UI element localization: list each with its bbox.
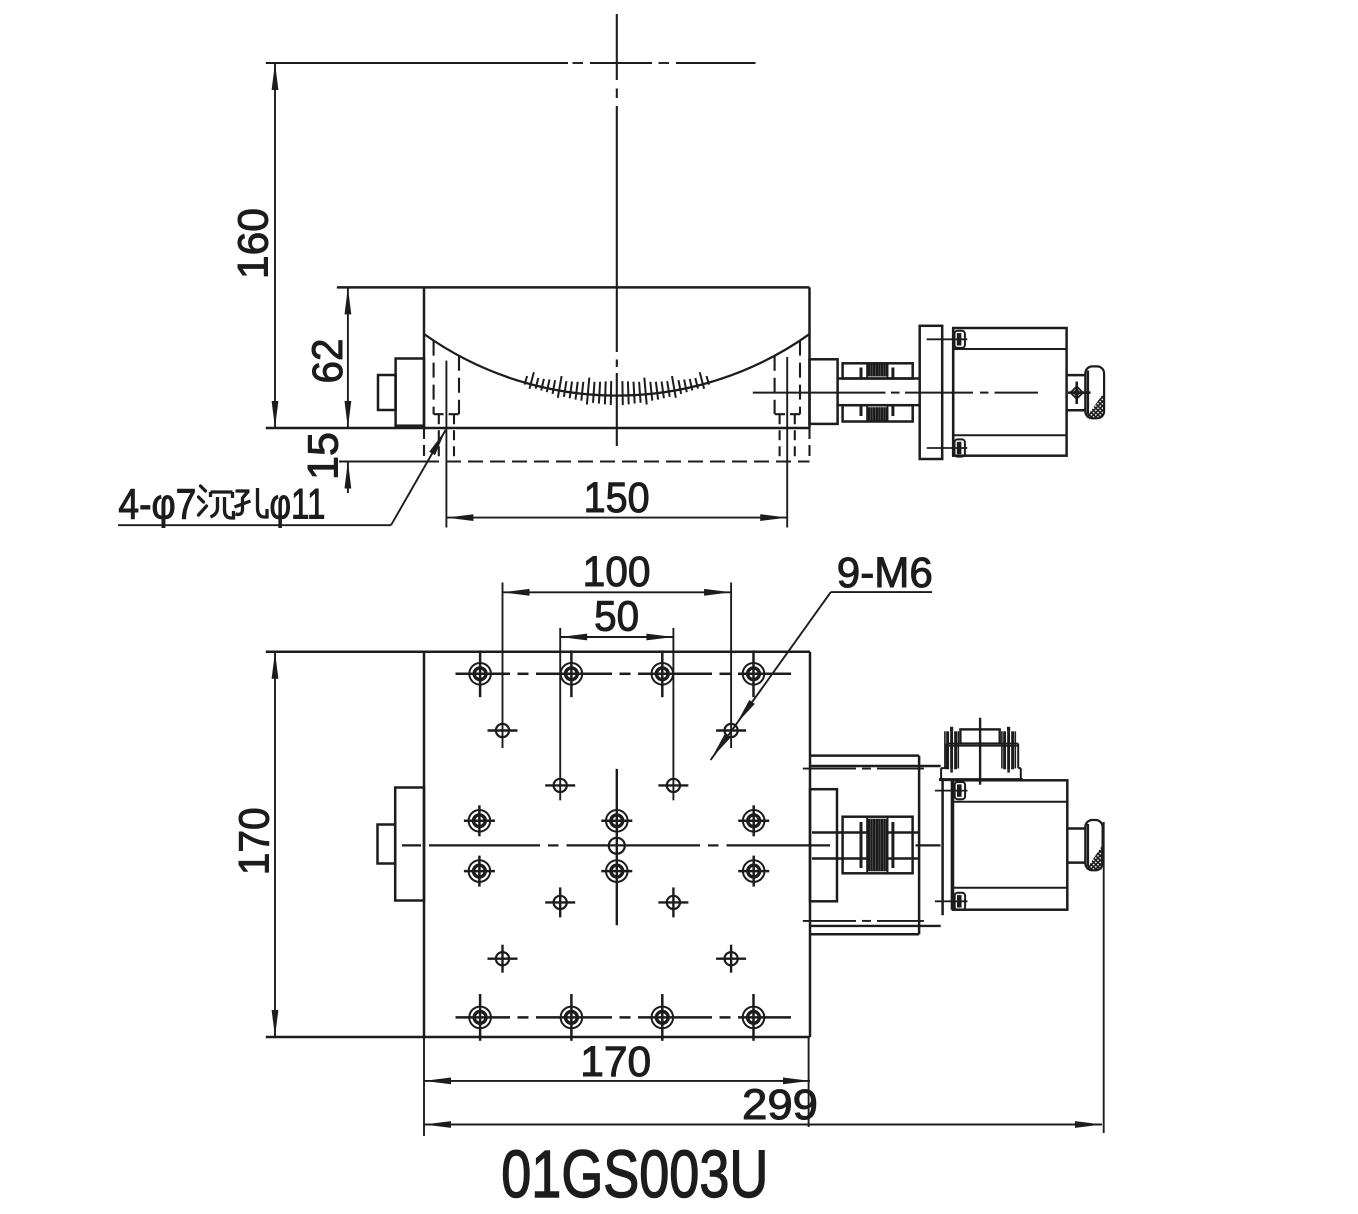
svg-text:100: 100 [583,548,651,596]
svg-text:15: 15 [300,432,348,480]
svg-text:170: 170 [231,807,279,875]
svg-text:160: 160 [230,208,278,279]
svg-text:150: 150 [584,474,650,522]
svg-text:φ11: φ11 [270,481,326,529]
svg-text:9-M6: 9-M6 [837,549,933,597]
svg-text:299: 299 [742,1081,818,1129]
svg-text:4-φ7: 4-φ7 [118,481,196,529]
svg-text:01GS003U: 01GS003U [501,1137,768,1212]
svg-text:50: 50 [594,593,639,641]
svg-text:170: 170 [580,1038,651,1086]
svg-text:62: 62 [304,339,352,384]
